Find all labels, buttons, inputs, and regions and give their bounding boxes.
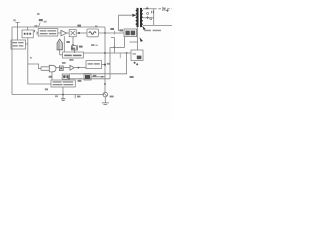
wire F1 to A1 (58, 32, 61, 34)
label 42 leader (39, 23, 41, 27)
wire gate to bottom box (51, 72, 53, 80)
label 49 (49, 76, 52, 78)
oscillator O1 (22, 30, 33, 38)
junction dot (62, 94, 64, 96)
label 47 (34, 25, 37, 27)
label 54 (77, 96, 80, 98)
arrowhead left (67, 78, 70, 80)
speck above T1 (95, 26, 97, 28)
small circle 2 (150, 18, 152, 20)
speck (30, 57, 32, 58)
wire pentagon stub (60, 50, 63, 55)
cap ticks below bus (61, 99, 65, 101)
wire CB bottom stub (62, 87, 64, 99)
junction dot (104, 32, 106, 34)
junction dot (104, 64, 106, 66)
vertical x105 (104, 27, 106, 92)
wire B1 out (102, 64, 106, 66)
box R1 (131, 50, 143, 61)
wire boxA link (26, 43, 28, 45)
junction dot (126, 52, 128, 54)
box B1 (86, 61, 102, 69)
label under secondary wire (144, 30, 151, 32)
wire O1 down (28, 38, 51, 84)
label 53 (110, 96, 114, 98)
box G2 (59, 66, 63, 71)
wire CF output (83, 52, 131, 54)
mixer M1 (69, 29, 76, 36)
ground (102, 103, 109, 105)
small circle 1 (147, 12, 149, 14)
label 42 (39, 19, 43, 21)
wire gate feed (28, 64, 41, 69)
secondary bottom wire (143, 24, 172, 26)
label 49b (45, 88, 48, 90)
coupling symbol (34, 30, 37, 35)
label 57 (130, 76, 134, 78)
label 41 (77, 25, 81, 27)
wire y78.8 (68, 78, 110, 80)
amp A2 (70, 65, 74, 70)
label 46 below (69, 59, 73, 61)
box T1 (87, 29, 99, 37)
wire y47 (110, 46, 125, 48)
secondary top wire (143, 8, 154, 10)
wire B2 out (91, 76, 105, 78)
wire below circle (104, 97, 106, 103)
wire right loop (70, 53, 126, 74)
pentagon transducer (57, 39, 62, 50)
label 45 above (71, 48, 75, 50)
label 51 (55, 95, 58, 97)
circles below R1 (134, 62, 136, 64)
label 52 (93, 75, 97, 77)
crystal X1 (72, 37, 78, 53)
stub x75 (74, 95, 76, 99)
small dark box C1 (62, 74, 69, 79)
arrowhead into x105 (101, 76, 104, 78)
wire gate out (56, 67, 59, 69)
junction dot (78, 32, 80, 34)
center box CF (63, 52, 84, 58)
wire A2 to B1 (74, 67, 86, 69)
tick at x114.5 (114, 31, 116, 35)
dark box P1 (124, 29, 137, 37)
ground circle (103, 92, 108, 97)
plus mark 3 (166, 9, 169, 12)
fig numeral (37, 13, 40, 15)
label 43 (110, 28, 114, 30)
wire primary leg (137, 27, 139, 42)
plus mark 1 (146, 7, 149, 10)
wire bottom bus (12, 94, 104, 96)
label 48b above G2 (62, 62, 66, 64)
stub x120 below y53 (119, 53, 121, 58)
label 45b (66, 41, 69, 43)
label 50 (78, 80, 82, 82)
wire G2 to A2 (63, 67, 70, 69)
L wire x114 (111, 38, 114, 53)
dark box B2 (84, 74, 91, 80)
wire left vertical (11, 27, 13, 95)
wire vert x64 (63, 36, 65, 52)
bottom box CB (51, 80, 75, 87)
junction dot x105 y84 (104, 83, 106, 85)
transformer (136, 8, 143, 27)
arrow blob 2 (139, 37, 143, 42)
label 48 (79, 46, 83, 48)
wire x110 down (109, 47, 111, 78)
box A input block (11, 40, 26, 49)
wire into R1 (137, 42, 139, 50)
wire T1 right (99, 32, 125, 34)
arrow blob near transformer (142, 26, 146, 30)
gate G1 (49, 65, 56, 72)
cap tick right (163, 7, 165, 11)
input terminal (16, 23, 20, 40)
arrowhead into transformer (132, 14, 136, 17)
secondary mid tap (143, 17, 154, 19)
wire P1 bottom (124, 37, 126, 48)
label 44 (119, 29, 123, 31)
amp A1 (61, 30, 67, 35)
wire M1 to T1 (76, 32, 87, 34)
wire O1 stub (26, 27, 28, 30)
junction dot (114, 47, 116, 49)
label near terminal (13, 19, 16, 21)
label 45 (70, 46, 72, 48)
cap ticks on rail (152, 11, 154, 13)
wire A1 to M1 (67, 32, 70, 34)
wire corner to transformer (119, 15, 136, 31)
junction dot (78, 67, 80, 69)
label top small (44, 21, 47, 23)
junction dot (104, 52, 106, 54)
box F1 (38, 29, 58, 36)
wire top bus (12, 26, 105, 28)
label small above B1 area (91, 44, 94, 46)
secondary rail (153, 9, 155, 26)
secondary top dashed (154, 8, 172, 10)
plus mark 2 (146, 16, 149, 19)
